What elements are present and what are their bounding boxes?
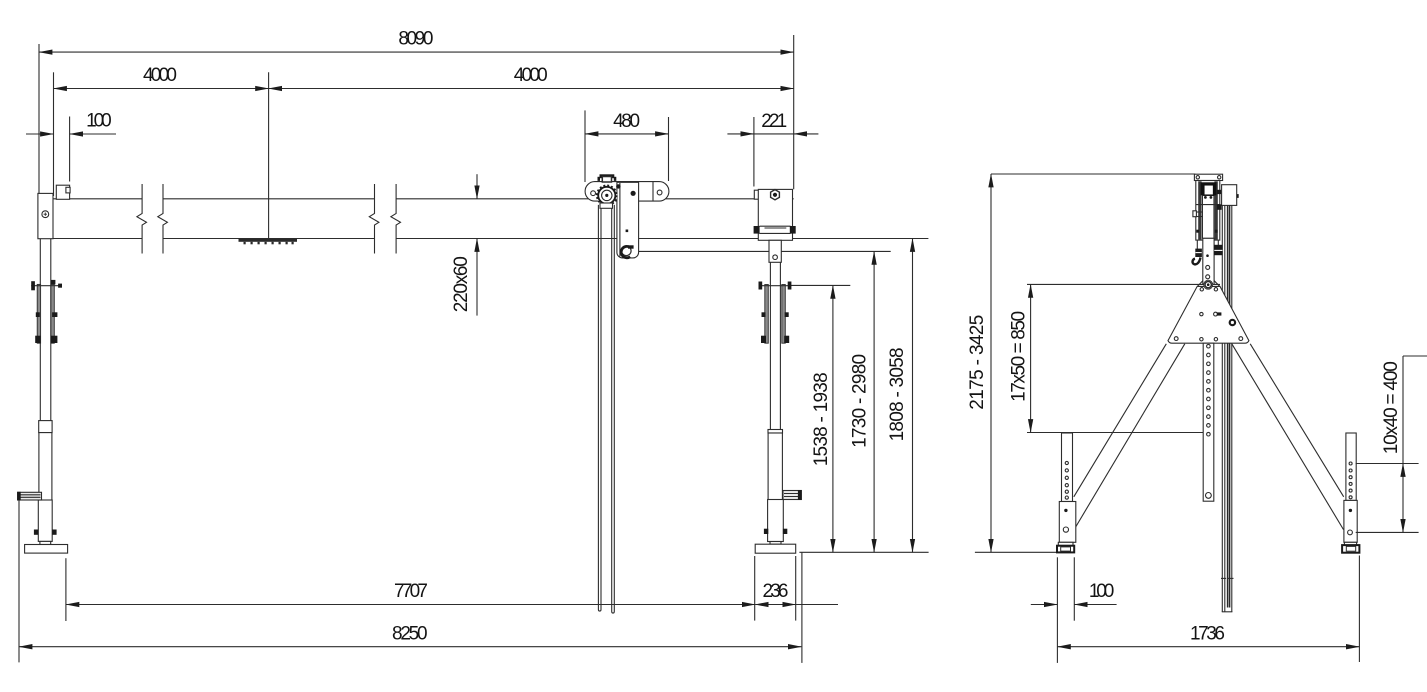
svg-text:4000: 4000	[143, 65, 177, 86]
svg-text:1808 - 3058: 1808 - 3058	[887, 347, 908, 441]
dimension 480	[585, 133, 669, 135]
dimension 220x60	[476, 174, 478, 199]
left foot bolts	[34, 530, 38, 535]
chain rails	[1221, 202, 1223, 612]
right foot neck	[770, 542, 781, 545]
break line 1b	[158, 184, 168, 254]
svg-text:8090: 8090	[398, 28, 433, 49]
svg-text:2175 - 3425: 2175 - 3425	[967, 315, 988, 410]
hoist chain left	[598, 205, 601, 611]
right column upper tube	[769, 240, 781, 262]
gusset bolts top	[1200, 288, 1203, 291]
right post lower	[1344, 500, 1357, 542]
bracket hex bolt	[771, 190, 780, 200]
left post	[1062, 433, 1073, 502]
apex bolt	[1204, 280, 1213, 289]
right foot bolts	[764, 529, 768, 534]
right column handle	[783, 491, 801, 500]
trolley wheel bolts	[591, 191, 596, 196]
extension line 8090/221 right	[793, 35, 795, 189]
hoist c-clamp	[1201, 182, 1217, 185]
hoist cross lines	[1196, 204, 1220, 206]
reference base line right	[799, 551, 928, 553]
left base plate	[25, 545, 68, 554]
right foot neck	[1344, 542, 1356, 545]
right clamp bolts row2	[762, 312, 766, 317]
extension line right-view bottom right	[1358, 556, 1360, 663]
trolley arm	[617, 182, 639, 258]
left column clamp plates	[37, 284, 40, 343]
bottom extension line 8250 right	[801, 552, 803, 663]
dimension 221	[754, 133, 794, 135]
left column joint	[39, 421, 52, 433]
beam end stop bracket	[754, 190, 759, 199]
right column lower tube	[768, 433, 782, 500]
right clamp bolts row1	[759, 285, 791, 287]
right leg outer	[1250, 344, 1344, 497]
dimension 236	[755, 604, 796, 606]
right column joint	[768, 430, 783, 434]
left foot neck	[40, 541, 51, 544]
right foot pad	[1342, 545, 1359, 553]
bracket axle	[760, 225, 791, 227]
left column head	[38, 193, 53, 238]
hoist top plate	[1194, 174, 1222, 180]
svg-text:8250: 8250	[392, 624, 428, 645]
hoist column holes	[1206, 265, 1210, 269]
dimension 1730-2980	[873, 251, 875, 552]
left column lower tube	[39, 433, 52, 501]
extension line right-view bottom left b	[1073, 557, 1075, 620]
right column foot tube	[768, 500, 784, 542]
dimension 1736	[1057, 646, 1359, 648]
gusset plate	[1168, 286, 1249, 343]
left foot pad	[1057, 546, 1074, 553]
trolley gear wheel	[596, 185, 617, 206]
dimension 100 right-view	[1031, 604, 1058, 606]
svg-text:1730 - 2980: 1730 - 2980	[850, 354, 871, 448]
extension line 4000 left / beam left	[53, 72, 55, 196]
dimension 8090	[39, 51, 794, 53]
left column tube	[39, 239, 41, 421]
svg-text:100: 100	[1089, 581, 1115, 602]
extension line right-view bottom left a	[1056, 557, 1058, 663]
break line 1a	[137, 184, 147, 254]
extension line 100 right	[69, 117, 71, 182]
hoist clamp bolts	[1204, 196, 1207, 199]
svg-text:10x40 = 400: 10x40 = 400	[1381, 361, 1402, 454]
dimension 4000 right	[269, 88, 794, 90]
svg-text:100: 100	[86, 110, 112, 131]
shackle	[622, 246, 632, 256]
left column handle	[18, 492, 42, 500]
extension line 480 right	[668, 117, 670, 181]
reference line hook level	[631, 250, 891, 252]
gusset bolts mid	[1200, 312, 1203, 315]
extension line center (4000/4000)	[268, 72, 270, 238]
right column tube	[769, 262, 771, 429]
bottom extension line right base right edge	[795, 556, 797, 621]
beam top edge	[54, 198, 143, 200]
hoist left step	[1193, 211, 1197, 217]
dimension 17x50=850	[1030, 284, 1032, 432]
svg-text:236: 236	[763, 581, 789, 602]
left column foot tube	[38, 500, 52, 541]
reference line clamp level	[789, 284, 850, 286]
left clamp bolts row2	[36, 312, 40, 317]
dimension 100 top-left	[26, 133, 54, 135]
apex flare	[1198, 281, 1203, 287]
beam tab top-left	[56, 185, 69, 199]
reference line 850 bottom	[1027, 432, 1204, 434]
dimension 2175-3425	[990, 174, 992, 552]
dimension 1538-1938	[832, 285, 834, 552]
trolley body	[585, 182, 669, 202]
trolley top clamp	[600, 174, 615, 178]
reference line base left	[975, 551, 1057, 553]
reference line 850 top	[1027, 283, 1220, 285]
svg-text:7707: 7707	[394, 581, 428, 602]
control box	[1222, 185, 1237, 206]
dimension 4000 left	[54, 88, 269, 90]
left clamp bolts row1	[31, 285, 62, 287]
bottom extension line right base left edge	[754, 556, 756, 621]
hoist j-hook	[1193, 258, 1201, 265]
gear guard	[600, 203, 613, 208]
reference line top	[991, 173, 1195, 175]
dimension 10x40=400	[1402, 356, 1404, 464]
svg-text:221: 221	[761, 111, 787, 132]
hoist lower column	[1203, 238, 1214, 284]
svg-text:1736: 1736	[1190, 623, 1225, 644]
hoist chain right	[612, 205, 615, 613]
load plate under beam center	[239, 239, 298, 242]
hoist body	[1196, 181, 1220, 241]
svg-text:480: 480	[613, 111, 640, 132]
svg-text:1538 - 1938: 1538 - 1938	[811, 372, 832, 466]
svg-text:17x50 = 850: 17x50 = 850	[1009, 311, 1030, 402]
bottom extension line left base right edge	[65, 558, 67, 621]
left foot neck	[1058, 542, 1073, 545]
left clamp bolts row3	[35, 336, 40, 343]
extension line 221 left	[753, 117, 755, 187]
left post lower	[1059, 502, 1076, 543]
svg-text:4000: 4000	[514, 65, 548, 86]
right clamp bolts row3	[761, 336, 766, 343]
break line 2b	[391, 184, 401, 254]
right leg inner	[1232, 344, 1344, 530]
hoist clamp darks	[1195, 249, 1202, 257]
beam bottom edge	[54, 238, 143, 240]
right base plate	[755, 544, 796, 553]
bottom extension line far left	[18, 500, 20, 663]
extension line 480 left	[584, 110, 586, 182]
break line 2a	[369, 184, 379, 254]
svg-text:220x60: 220x60	[451, 256, 472, 312]
gusset bolts bottom	[1174, 337, 1178, 341]
hoist right bits	[1217, 190, 1221, 194]
extension line 8090 left	[38, 44, 40, 193]
dimension 1808-3058	[912, 239, 914, 553]
left leg outer	[1074, 344, 1167, 497]
dimension 7707	[66, 604, 755, 606]
right post	[1346, 433, 1356, 500]
center strut	[1203, 343, 1214, 501]
left leg inner	[1074, 344, 1185, 530]
right column clamp plates	[765, 285, 769, 344]
dimension 8250	[19, 646, 801, 648]
